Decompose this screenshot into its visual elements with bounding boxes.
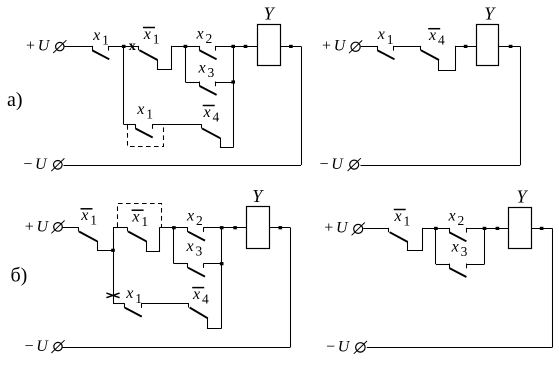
svg-text:x: x — [186, 207, 194, 224]
junction dot node 2 (a-left) — [184, 45, 188, 48]
label x2 (b-right) — [448, 207, 465, 228]
terminal +U (a-left) — [25, 37, 66, 54]
svg-text:1: 1 — [404, 213, 411, 228]
svg-text:x: x — [428, 27, 436, 44]
contact x2 (b-right) — [449, 228, 466, 241]
wire to x3 (b-right) — [436, 264, 449, 266]
svg-text:1: 1 — [146, 107, 153, 122]
wire +U to x1 (a-left) — [64, 46, 92, 48]
wire down to x3 row (b-right) — [435, 228, 437, 264]
coil terminal dot right (b-right) — [540, 227, 544, 230]
svg-text:+U: +U — [24, 219, 50, 236]
wire +U to x̄1 (b-right) — [363, 228, 389, 230]
svg-text:3: 3 — [208, 65, 215, 80]
svg-text:x: x — [377, 26, 385, 43]
coil terminal dot right (a-left) — [289, 45, 293, 48]
contact x3 (a-left) — [200, 82, 217, 95]
junction dot node 3 (a-left) — [231, 45, 235, 48]
contact x2 (a-left) — [200, 46, 217, 59]
label x2 (b-left) — [186, 207, 203, 228]
label x̄1 (a-left) — [143, 26, 160, 47]
label x̄1 (b-right) — [394, 208, 411, 229]
wire to x3 (a-left) — [185, 82, 199, 84]
wire lower x1 to x̄4 (a-left) — [152, 124, 201, 126]
wire coil to corner (a-right) — [499, 46, 520, 48]
contact x1 (a-left row1) — [92, 46, 109, 59]
wire to lower x1 (b-left) — [113, 303, 125, 305]
label x1 (a-left row1) — [92, 27, 109, 48]
svg-text:x: x — [203, 104, 211, 121]
svg-text:4: 4 — [202, 292, 209, 307]
svg-text:2: 2 — [458, 213, 465, 228]
wire to x2 (b-right) — [422, 228, 449, 230]
break mark x (b-left) — [106, 293, 119, 298]
svg-text:x: x — [186, 238, 194, 255]
relay coil Y (a-right) — [477, 4, 499, 66]
svg-text:x: x — [394, 208, 402, 225]
svg-text:4: 4 — [438, 33, 445, 48]
junction dot x3 right (a-left) — [231, 80, 235, 83]
label x̄4 (a-right) — [428, 27, 445, 48]
svg-text:x: x — [131, 209, 139, 226]
wire x3 up to main (b-right) — [484, 228, 486, 264]
svg-text:1: 1 — [135, 291, 142, 306]
contact x1 (a-left lower) — [136, 124, 153, 137]
wire into x̄1 second (b-left) — [113, 227, 127, 229]
contact x3 (b-right) — [449, 264, 466, 277]
coil terminal dot left (b-left) — [233, 226, 237, 229]
junction dot x2 left (b-right) — [434, 227, 438, 230]
svg-text:1: 1 — [387, 32, 394, 47]
terminal +U (a-right) — [321, 37, 362, 54]
svg-text:x: x — [136, 101, 144, 118]
label x̄4 (a-left) — [203, 104, 220, 125]
svg-text:1: 1 — [90, 213, 97, 228]
coil terminal dot left (a-right) — [464, 45, 468, 48]
svg-text:3: 3 — [196, 244, 203, 259]
wire x1 to x̄1 (a-left) — [109, 46, 139, 48]
svg-text:1: 1 — [102, 33, 109, 48]
wire down to lower branch (b-left) — [113, 250, 115, 303]
svg-text:2: 2 — [196, 213, 203, 228]
terminal -U (b-right) — [325, 339, 367, 356]
svg-text:а): а) — [7, 89, 23, 111]
junction dot step corner (b-left) — [111, 249, 115, 252]
wire x2 to coil (a-left) — [215, 46, 257, 48]
wire x3 to node3 (a-left) — [215, 82, 233, 84]
svg-text:1: 1 — [141, 214, 148, 229]
label x1 (a-right) — [377, 26, 394, 47]
junction dot x2 right (b-left) — [220, 226, 224, 229]
wire down to x3 row (b-left) — [173, 228, 175, 264]
wire -U rail (a-right) — [361, 165, 521, 167]
contact x̄1 NC second (b-left) — [128, 227, 160, 251]
wire -U rail (b-right) — [367, 347, 553, 349]
wire +U to x1 (a-right) — [361, 46, 377, 48]
wire coil to corner (b-right) — [532, 228, 553, 230]
wire -U rail (a-left) — [64, 165, 302, 167]
junction dot x2 left (b-left) — [172, 226, 176, 229]
junction dot x2 right (b-right) — [483, 227, 487, 230]
contact x2 (b-left) — [188, 227, 206, 240]
coil terminal dot left (b-right) — [496, 227, 500, 230]
contact x̄4 NC (a-right) — [421, 46, 456, 71]
contact x̄1 NC (a-left) — [139, 46, 172, 70]
wire lower x1 to x̄4 (b-left) — [142, 303, 189, 305]
svg-text:x: x — [198, 59, 206, 76]
svg-text:−U: −U — [24, 338, 50, 355]
label x2 (a-left) — [196, 25, 213, 46]
svg-text:−U: −U — [22, 156, 48, 173]
svg-text:б): б) — [11, 264, 28, 286]
relay coil Y (b-left) — [247, 186, 270, 249]
wire node2 down to x3 row (a-left) — [185, 46, 187, 82]
dashed highlight box around second x̄1 (b-left) — [118, 204, 162, 228]
dashed highlight box around lower x1 (a-left) — [128, 125, 164, 147]
svg-text:4: 4 — [213, 109, 220, 124]
wire x2 to coil (b-left) — [204, 227, 247, 229]
junction dot x3 right (b-left) — [220, 262, 224, 265]
wire right vertical (b-right) — [552, 228, 554, 347]
wire -U rail (b-left) — [63, 347, 291, 349]
terminal -U (a-left) — [22, 156, 64, 173]
svg-text:3: 3 — [461, 244, 468, 259]
svg-text:x: x — [92, 27, 100, 44]
svg-text:x: x — [451, 238, 459, 255]
svg-text:x: x — [192, 286, 200, 303]
wire x3 to vertical (b-left) — [204, 263, 222, 265]
wire x1 to x̄4 (a-right) — [393, 46, 420, 48]
wire x̄1 to x2 (a-left) — [171, 46, 199, 48]
svg-text:x: x — [129, 39, 136, 54]
relay coil Y (a-left) — [258, 4, 281, 66]
contact x̄4 NC (a-left) — [202, 124, 234, 147]
terminal +U (b-left) — [24, 219, 65, 236]
svg-text:x: x — [143, 26, 151, 43]
contact x1 (b-left lower) — [125, 303, 142, 316]
label x̄4 (b-left) — [192, 286, 209, 307]
wire coil to right corner (a-left) — [281, 46, 302, 48]
svg-text:−U: −U — [319, 156, 345, 173]
terminal -U (b-left) — [24, 338, 65, 355]
label x̄1 second (b-left) — [131, 209, 148, 230]
svg-text:+U: +U — [25, 37, 51, 54]
contact x1 (a-right) — [378, 46, 395, 59]
wire x̄4 to coil (a-right) — [456, 46, 476, 48]
wire node1 down to lower branch (a-left) — [123, 46, 125, 124]
svg-text:2: 2 — [206, 31, 213, 46]
contact x̄4 NC (b-left) — [189, 303, 222, 328]
svg-text:x: x — [448, 207, 456, 224]
contact x3 (b-left) — [188, 263, 206, 276]
wire x2 to coil (b-right) — [466, 228, 509, 230]
wire right vertical (a-left) — [301, 46, 303, 165]
svg-text:1: 1 — [153, 31, 160, 46]
wire to lower x1 (a-left) — [124, 124, 136, 126]
wire node3 vertical (a-left) — [233, 46, 235, 147]
svg-text:+U: +U — [321, 37, 347, 54]
label x̄1 first (b-left) — [80, 207, 97, 228]
coil terminal dot left (a-left) — [244, 45, 248, 48]
svg-text:x: x — [125, 285, 133, 302]
wire to x3 (b-left) — [174, 263, 188, 265]
svg-text:x: x — [80, 207, 88, 224]
wire x3 right (b-right) — [466, 264, 485, 266]
label x3 (a-left) — [198, 59, 215, 80]
contact x̄1 NC (b-right) — [389, 228, 423, 251]
wire +U to x̄1 (b-left) — [62, 227, 78, 229]
coil terminal dot right (a-right) — [509, 45, 513, 48]
terminal +U (b-right) — [323, 220, 365, 237]
label x1 (a-left lower) — [136, 101, 153, 122]
wire right vertical (b-left) — [290, 228, 292, 347]
terminal -U (a-right) — [319, 156, 361, 173]
junction dot node 1 (a-left) — [122, 45, 126, 48]
wire up to second contact (b-left) — [113, 228, 115, 251]
relay coil Y (b-right) — [509, 187, 532, 249]
label x1 (b-left lower) — [125, 285, 142, 306]
contact x̄1 NC first (b-left) — [79, 227, 114, 250]
label x3 (b-right) — [451, 238, 468, 259]
svg-text:x: x — [196, 25, 204, 42]
wire coil to corner (b-left) — [269, 227, 290, 229]
svg-text:−U: −U — [325, 339, 351, 356]
wire to x2 (b-left) — [160, 227, 188, 229]
svg-text:+U: +U — [323, 220, 349, 237]
coil terminal dot right (b-left) — [279, 226, 283, 229]
wire right vertical of parallel group (b-left) — [221, 228, 223, 329]
wire right vertical (a-right) — [520, 46, 522, 165]
label x3 (b-left) — [186, 238, 203, 259]
